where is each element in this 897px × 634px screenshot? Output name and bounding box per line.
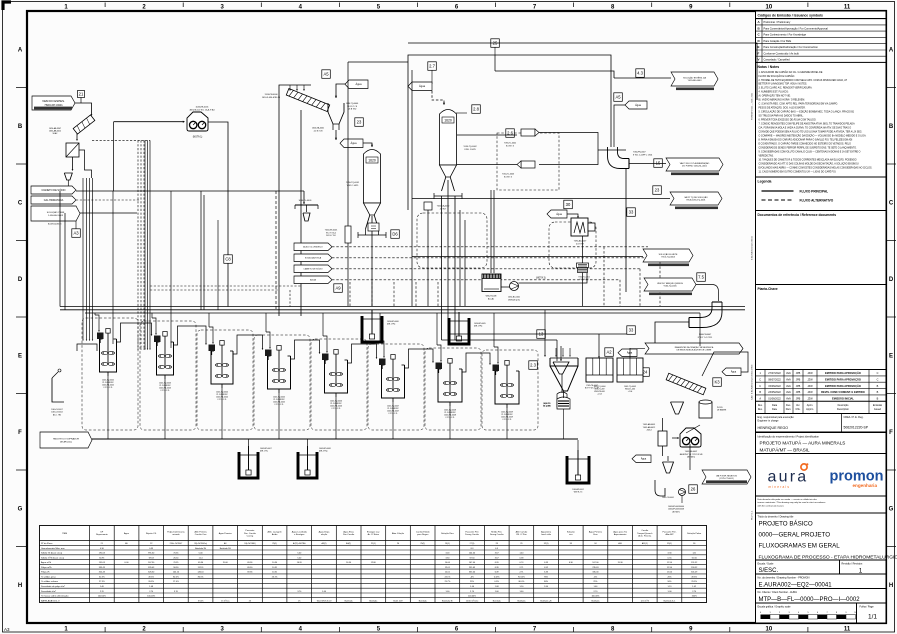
svg-text:(NOTA 1): (NOTA 1) bbox=[193, 136, 203, 139]
svg-text:301.29: 301.29 bbox=[691, 572, 698, 574]
svg-text:12.01: 12.01 bbox=[445, 567, 451, 569]
svg-text:Represamto: Represamto bbox=[96, 533, 108, 536]
svg-text:MTP—B—FL—0000—PRO—I—0002: MTP—B—FL—0000—PRO—I—0002 bbox=[759, 597, 861, 603]
svg-text:Título do desenho / Drawi: Título do desenho / Drawing title bbox=[758, 515, 794, 518]
feed launder box tank 3 bbox=[154, 336, 161, 343]
pump 1030-BL-0001 bbox=[510, 282, 519, 291]
svg-text:F: F bbox=[758, 51, 760, 55]
svg-text:1030-BL-0001: 1030-BL-0001 bbox=[508, 297, 520, 299]
svg-text:69.36: 69.36 bbox=[198, 562, 204, 564]
wire chute to bin bbox=[76, 133, 78, 140]
svg-text:1045-CV-0002: 1045-CV-0002 bbox=[51, 412, 63, 414]
svg-text:1060-BP-0002: 1060-BP-0002 bbox=[572, 489, 584, 491]
svg-text:Engineer in charge: Engineer in charge bbox=[758, 420, 780, 423]
svg-text:23 A - NOTA 7: 23 A - NOTA 7 bbox=[170, 542, 184, 545]
column vessel Y050-TQ-0002 bbox=[440, 110, 457, 192]
node box 13 bbox=[537, 330, 546, 339]
filter press unit 1045-EE-0001 bbox=[187, 112, 208, 131]
svg-text:10: 10 bbox=[766, 627, 773, 633]
svg-text:Passante Pen.: Passante Pen. bbox=[663, 530, 677, 533]
svg-text:10.31: 10.31 bbox=[272, 567, 278, 569]
svg-text:(Y075-CT-0001): (Y075-CT-0001) bbox=[719, 478, 734, 480]
inclined screen Y060-PN-0008 bbox=[666, 373, 706, 394]
svg-text:C: C bbox=[18, 200, 23, 206]
svg-text:with the contractual clauses: with the contractual clauses bbox=[758, 505, 784, 508]
svg-text:Batelada: Batelada bbox=[419, 599, 428, 602]
svg-text:Y050-TL-0001: Y050-TL-0001 bbox=[578, 277, 590, 279]
node box 24 bbox=[641, 368, 650, 377]
cascade launder bridges bbox=[117, 323, 152, 342]
svg-text:235.63: 235.63 bbox=[592, 567, 599, 569]
svg-text:F: F bbox=[889, 430, 893, 436]
flag VAI P SILO bbox=[666, 158, 723, 171]
svg-text:29%: 29% bbox=[593, 581, 597, 583]
svg-text:0000—GERAL PROJETO: 0000—GERAL PROJETO bbox=[759, 531, 831, 538]
drawing title block bbox=[756, 513, 887, 560]
svg-text:Issued: Issued bbox=[874, 408, 882, 411]
agitated CIL tank 1045-TQ-0004 bbox=[209, 341, 234, 389]
svg-text:27.0%: 27.0% bbox=[173, 581, 179, 583]
pipe elbow 1040-PN-0007 bbox=[689, 302, 712, 318]
svg-text:SOLUÇÃO 70868: SOLUÇÃO 70868 bbox=[47, 211, 65, 214]
svg-text:Água/área: Água/área bbox=[541, 530, 552, 533]
planta-chave block bbox=[756, 285, 887, 370]
svg-text:para Regen: para Regen bbox=[417, 534, 429, 536]
svg-text:2h: 2h bbox=[298, 600, 300, 602]
issuance codes table bbox=[756, 11, 887, 63]
svg-text:DE AR (CIL): DE AR (CIL) bbox=[60, 440, 72, 443]
svg-text:322.43: 322.43 bbox=[99, 572, 106, 574]
svg-text:Y060-PN-0007: Y060-PN-0007 bbox=[633, 152, 646, 154]
svg-text:335.43: 335.43 bbox=[99, 567, 106, 569]
vessel label Y050-CA-0012 box bbox=[424, 202, 432, 210]
bin vessel 1635-AB-0012 bbox=[66, 143, 79, 157]
svg-text:Água: Água bbox=[635, 104, 641, 107]
node box 23 bbox=[355, 118, 364, 127]
svg-text:Água para TQ: Água para TQ bbox=[613, 530, 627, 533]
svg-text:% sólidos volume: % sólidos volume bbox=[41, 581, 59, 583]
svg-text:4B/12 A 1x1 W L 13-A JT A3: 4B/12 A 1x1 W L 13-A JT A3 bbox=[189, 108, 215, 111]
svg-text:CAL HIDRATADA: CAL HIDRATADA bbox=[44, 199, 64, 202]
node box 2.6 bbox=[506, 129, 515, 138]
svg-text:Y050-MT-0001: Y050-MT-0001 bbox=[325, 230, 338, 232]
tail distributor funnel Y065-TE-0002 bbox=[550, 358, 578, 366]
wire pot down bbox=[582, 273, 584, 307]
svg-text:Descrição: Descrição bbox=[838, 404, 849, 407]
wire vertical x626 bbox=[625, 169, 627, 293]
node box C8 bbox=[224, 255, 233, 263]
svg-text:191.52: 191.52 bbox=[691, 562, 698, 564]
flag agua dewater bbox=[632, 455, 651, 463]
trunk verticals left bbox=[59, 191, 61, 307]
svg-text:60.93: 60.93 bbox=[99, 557, 105, 559]
svg-text:Carvão: Carvão bbox=[641, 529, 649, 532]
svg-text:Y065-AB-0012: Y065-AB-0012 bbox=[643, 426, 655, 429]
svg-text:Conforme Construído / As bui: Conforme Construído / As built bbox=[764, 51, 800, 55]
legend block bbox=[756, 177, 887, 211]
svg-text:Batelada -2h: Batelada -2h bbox=[540, 599, 551, 602]
single verticals mid-left bbox=[112, 191, 114, 344]
wire solution header y213 bbox=[80, 212, 137, 214]
svg-text:Notas / Notes: Notas / Notes bbox=[758, 65, 780, 69]
svg-text:A9: A9 bbox=[335, 286, 341, 291]
svg-text:A/C L 7E2: A/C L 7E2 bbox=[53, 413, 61, 416]
svg-text:4.3: 4.3 bbox=[637, 71, 643, 76]
svg-text:Polpa m³/h: Polpa m³/h bbox=[41, 566, 52, 569]
svg-text:HENRIQUE REGO: HENRIQUE REGO bbox=[758, 426, 789, 430]
svg-text:Batelada: Batelada bbox=[369, 599, 378, 602]
svg-text:PROJETO BÁSICO: PROJETO BÁSICO bbox=[759, 520, 813, 527]
svg-text:70.35: 70.35 bbox=[173, 553, 179, 555]
svg-text:Água: Água bbox=[355, 82, 362, 86]
svg-text:SODA CÁUSTICA: SODA CÁUSTICA bbox=[305, 256, 322, 259]
flag VAI P TQ SOLUCAO RICA bbox=[670, 192, 722, 205]
svg-text:12.50: 12.50 bbox=[667, 567, 673, 569]
svg-text:AVA: AVA bbox=[786, 378, 791, 381]
wire screen2 feed bbox=[702, 352, 748, 376]
svg-text:Batelada: Batelada bbox=[517, 599, 526, 602]
wire top bus C bbox=[348, 61, 408, 63]
svg-text:9. CONSIDERADAS CONVOLUTO CAN: 9. CONSIDERADAS CONVOLUTO CANAL E CLUB —… bbox=[759, 150, 861, 153]
node box 2.7 bbox=[428, 62, 437, 71]
svg-text:Preliminar / Preliminary: Preliminar / Preliminary bbox=[764, 20, 792, 24]
svg-text:termos contratuais / This draw: termos contratuais / This drawing may on… bbox=[758, 501, 827, 504]
svg-text:(NR.1 PK): (NR.1 PK) bbox=[387, 324, 396, 326]
svg-text:Alim Carvão: Alim Carvão bbox=[516, 530, 528, 533]
svg-text:fund. utiliz: fund. utiliz bbox=[541, 533, 551, 536]
svg-text:Rev.: Rev. bbox=[758, 408, 763, 411]
svg-text:BETTER P/ LAVAGEM E TOP. ÁGUA: BETTER P/ LAVAGEM E TOP. ÁGUA / NOTES. bbox=[759, 83, 808, 86]
svg-text:E: E bbox=[18, 353, 22, 359]
J pipe dewater bbox=[655, 480, 665, 496]
svg-text:A7(2)+NOTA5: A7(2)+NOTA5 bbox=[293, 542, 306, 545]
svg-text:-6%: -6% bbox=[470, 577, 474, 579]
node box A2 bbox=[605, 348, 614, 357]
svg-text:26(1): 26(1) bbox=[445, 543, 450, 545]
dashed tank group enclosures bbox=[82, 318, 138, 430]
agitated CIL tank 1045-TQ-0006 bbox=[322, 350, 348, 398]
node box 2.3 bbox=[529, 361, 538, 370]
svg-text:326.30: 326.30 bbox=[148, 572, 155, 574]
svg-text:80.5%: 80.5% bbox=[173, 577, 179, 579]
feed launder box tank 5 bbox=[265, 350, 272, 357]
svg-text:84%: 84% bbox=[544, 581, 548, 583]
svg-text:DN9 A.B (2.3): DN9 A.B (2.3) bbox=[508, 298, 520, 301]
svg-text:Ver.: Ver. bbox=[796, 404, 800, 407]
legend fluxo principal line bbox=[762, 190, 794, 192]
svg-text:O COMPARE — MAIORES ABSTENÇÃO: O COMPARE — MAIORES ABSTENÇÃO DA EDIÇÃO … bbox=[759, 135, 867, 138]
svg-text:Batelada 3+1: Batelada 3+1 bbox=[664, 599, 677, 602]
svg-text:107.00: 107.00 bbox=[592, 562, 599, 564]
svg-text:Pen.Carvão: Pen.Carvão bbox=[343, 533, 355, 536]
svg-text:1614-3-434-M 80.96: 1614-3-434-M 80.96 bbox=[262, 97, 281, 99]
graphic scale bar bbox=[761, 615, 771, 620]
svg-text:CREA / P. E. Reg.: CREA / P. E. Reg. bbox=[844, 416, 864, 419]
svg-text:100.00%: 100.00% bbox=[591, 596, 599, 598]
svg-text:1040-CV-0007: 1040-CV-0007 bbox=[51, 409, 63, 411]
flag SOLUCAO 7088 bbox=[31, 206, 80, 221]
svg-text:6. PREVER TODA EXCESSO DE ÁGU: 6. PREVER TODA EXCESSO DE ÁGUA COM TALUD… bbox=[759, 119, 817, 122]
svg-text:Água limpa: Água limpa bbox=[319, 530, 331, 533]
svg-text:VEM DO TANQUE QUENCH: VEM DO TANQUE QUENCH bbox=[657, 282, 683, 285]
flag VEM DO ESPES 7600-FP-0021 bbox=[32, 96, 75, 110]
regeneration kiln 1630-TM-0001 bbox=[482, 274, 501, 292]
svg-text:AVA: AVA bbox=[786, 391, 791, 394]
svg-text:Água: Água bbox=[124, 532, 130, 535]
svg-text:15 m³/cia: 15 m³/cia bbox=[221, 599, 230, 602]
node box 25 bbox=[491, 39, 500, 48]
node box 23 right bbox=[653, 186, 662, 195]
svg-text:8.0 M 7.3: 8.0 M 7.3 bbox=[506, 145, 514, 147]
svg-text:ITEM: ITEM bbox=[62, 533, 67, 535]
svg-text:16.20: 16.20 bbox=[297, 562, 303, 564]
svg-text:1310-PN-0006: 1310-PN-0006 bbox=[264, 94, 278, 96]
svg-text:27.3%: 27.3% bbox=[99, 581, 105, 583]
svg-text:E.AURA002-EQ2-00041: E.AURA002-EQ2-00041 bbox=[751, 236, 754, 260]
svg-text:E: E bbox=[758, 45, 760, 49]
svg-text:Y050-TQ-0002: Y050-TQ-0002 bbox=[463, 146, 477, 148]
wire screen feed riser x279 bbox=[279, 85, 311, 316]
svg-text:Batelada: Batelada bbox=[493, 599, 502, 602]
svg-text:D: D bbox=[889, 277, 894, 283]
svg-text:H: H bbox=[889, 583, 893, 589]
sump pump pit 1050-BP-0006 bbox=[361, 310, 383, 342]
svg-text:ÁGUA: ÁGUA bbox=[310, 278, 316, 281]
bell sampler below funnel bbox=[557, 397, 570, 409]
svg-text:11: 11 bbox=[844, 627, 851, 633]
svg-text:Escala gráfica / Graphic s: Escala gráfica / Graphic scale bbox=[758, 606, 792, 609]
svg-text:D: D bbox=[18, 277, 23, 283]
svg-text:Y065-EE-0007: Y065-EE-0007 bbox=[685, 451, 697, 453]
client number block bbox=[756, 589, 887, 604]
drum Y065 cylinder bbox=[699, 402, 712, 418]
small pot Y050-TL-0001 bbox=[577, 263, 589, 268]
svg-text:96%: 96% bbox=[544, 577, 548, 579]
wire kiln feed twin verticals bbox=[490, 190, 492, 273]
svg-text:CIANETO DE SÓDIO: CIANETO DE SÓDIO bbox=[42, 189, 66, 192]
logos block bbox=[756, 454, 887, 497]
svg-text:% massa sobre alimentação: % massa sobre alimentação bbox=[41, 595, 69, 598]
svg-text:Passante: Passante bbox=[245, 529, 255, 532]
svg-text:(NOTA 7): (NOTA 7) bbox=[672, 510, 680, 513]
svg-text:C: C bbox=[759, 385, 761, 388]
wire sub-bus y71 bbox=[495, 71, 614, 78]
node box 7.5 bbox=[697, 273, 706, 282]
wire elbow to silo flag bbox=[629, 163, 666, 165]
node box 26 bbox=[689, 485, 698, 494]
svg-text:W P.05: W P.05 bbox=[717, 407, 723, 409]
flag agua screen bbox=[345, 80, 368, 89]
svg-text:Solução: Solução bbox=[567, 530, 576, 533]
svg-text:Y050-CA-0012: Y050-CA-0012 bbox=[437, 205, 450, 208]
svg-text:(NR.1 PK): (NR.1 PK) bbox=[474, 326, 483, 328]
svg-text:96.30: 96.30 bbox=[173, 567, 179, 569]
svg-text:146.10: 146.10 bbox=[198, 572, 205, 574]
svg-text:59.50: 59.50 bbox=[469, 557, 475, 559]
dashed enclosure heater bbox=[549, 222, 596, 268]
trunk line y306 bbox=[60, 306, 745, 308]
svg-text:100.00%: 100.00% bbox=[468, 596, 476, 598]
svg-text:CIANETO DE SÓDIO: CIANETO DE SÓDIO bbox=[303, 267, 323, 270]
screen feed arrows bbox=[289, 85, 291, 90]
svg-text:Escala / Scale: Escala / Scale bbox=[758, 562, 774, 565]
svg-text:3. ELUTO CLARO A/C. REAGENT V: 3. ELUTO CLARO A/C. REAGENT VERIFICADURA… bbox=[759, 87, 813, 90]
svg-text:Folha / Page: Folha / Page bbox=[860, 606, 875, 609]
svg-text:CIA. FORA BAIXA MOLA E VAZIA A: CIA. FORA BAIXA MOLA E VAZIA A CURVA, TO… bbox=[759, 127, 852, 130]
svg-text:VAI P/ ESP. REJEITOS: VAI P/ ESP. REJEITOS bbox=[716, 474, 737, 477]
svg-text:Chk.: Chk. bbox=[796, 408, 801, 411]
filter column small bbox=[658, 431, 667, 446]
svg-text:(NOTA 5): (NOTA 5) bbox=[687, 456, 695, 459]
svg-text:JPB: JPB bbox=[796, 397, 801, 400]
wire top bus B bbox=[408, 43, 757, 100]
svg-text:160%: 160% bbox=[692, 596, 697, 598]
svg-text:33: 33 bbox=[629, 210, 634, 215]
flag CIANETO right bbox=[294, 265, 332, 273]
tank1 feed launder trough bbox=[77, 344, 97, 351]
svg-text:PACOTE DO SOPRADOR: PACOTE DO SOPRADOR bbox=[53, 437, 79, 440]
svg-text:Água: Água bbox=[419, 84, 426, 88]
svg-text:4. NUMBERS EST. FLUXOS:: 4. NUMBERS EST. FLUXOS: bbox=[759, 92, 789, 94]
node box K3 bbox=[713, 378, 722, 387]
svg-text:1040-TL-0001: 1040-TL-0001 bbox=[298, 200, 312, 202]
wire header double corner x201 bbox=[200, 191, 202, 310]
svg-text:G: G bbox=[889, 506, 894, 512]
svg-text:A5: A5 bbox=[323, 72, 329, 77]
dashed bundle top header bbox=[92, 139, 150, 141]
funnel quench-feed bbox=[553, 362, 569, 374]
svg-text:AVA: AVA bbox=[786, 372, 791, 375]
svg-text:oriunda: oriunda bbox=[172, 534, 180, 536]
agitated CIL tank 1045-TQ-0003 bbox=[154, 332, 174, 380]
svg-text:10. TANQUES DE CIANETO R & TOD: 10. TANQUES DE CIANETO R & TODOS CORRENT… bbox=[759, 158, 857, 161]
svg-text:Aprm.: Aprm. bbox=[807, 404, 814, 407]
node box A3 bbox=[72, 229, 81, 238]
svg-text:Desag Carvão: Desag Carvão bbox=[490, 533, 504, 536]
node box 2.9 bbox=[334, 284, 343, 293]
bell vessel quench bbox=[557, 392, 567, 407]
svg-text:Alim. Lavagem: Alim. Lavagem bbox=[268, 530, 282, 533]
svg-text:Água Enxa: Água Enxa bbox=[343, 530, 354, 533]
svg-text:V.W.L 1 H/25: V.W.L 1 H/25 bbox=[464, 149, 476, 151]
svg-text:(NR.1 PL): (NR.1 PL) bbox=[260, 451, 268, 453]
svg-text:Documentos de referência /: Documentos de referência / Reference doc… bbox=[758, 213, 837, 217]
svg-text:335.43: 335.43 bbox=[148, 567, 155, 569]
svg-text:V.W.L 1 H/25: V.W.L 1 H/25 bbox=[347, 185, 359, 187]
wire header corner x304 down to tray bbox=[303, 191, 305, 204]
wire to tail funnel bbox=[544, 330, 546, 356]
flag agua column2 bbox=[408, 82, 432, 91]
node box 30 bbox=[564, 200, 573, 209]
pump dewater-pump bbox=[679, 489, 686, 496]
left solid bundle x83-93 bbox=[82, 178, 84, 340]
svg-text:PROJETO MATUPÁ — AURA MINERA: PROJETO MATUPÁ — AURA MINERALS bbox=[760, 439, 846, 445]
svg-text:% sólidos peso: % sólidos peso bbox=[41, 577, 56, 579]
sump pump pit 1045-BP-0007 bbox=[238, 446, 259, 478]
svg-text:4.2 N / DN: 4.2 N / DN bbox=[314, 130, 323, 132]
wire riser x408 bbox=[407, 62, 409, 210]
svg-text:25(1): 25(1) bbox=[371, 543, 376, 545]
svg-text:JZW: JZW bbox=[807, 372, 813, 375]
svg-text:AVA: AVA bbox=[786, 397, 791, 400]
svg-text:PLOT 1:1: PLOT 1:1 bbox=[752, 510, 754, 520]
svg-text:Pen. Carvão: Pen. Carvão bbox=[244, 532, 257, 535]
flag agua right bbox=[625, 101, 647, 109]
inclined chute 1620-AB-3307 bbox=[73, 115, 95, 134]
svg-text:100.00%: 100.00% bbox=[147, 596, 155, 598]
svg-text:23: 23 bbox=[357, 120, 362, 125]
svg-text:BG? T W.L T LTR: BG? T W.L T LTR bbox=[585, 388, 600, 390]
svg-text:-6%: -6% bbox=[594, 577, 598, 579]
flag AGUA reagents bbox=[294, 276, 332, 284]
svg-text:JPB: JPB bbox=[796, 391, 801, 394]
svg-text:167.30: 167.30 bbox=[148, 562, 155, 564]
svg-text:49.3%: 49.3% bbox=[691, 577, 697, 579]
svg-text:MATUPÁ/MT — BRASIL: MATUPÁ/MT — BRASIL bbox=[760, 447, 811, 453]
legend fluxo alternativo line bbox=[762, 199, 794, 201]
funnel screen2-under bbox=[671, 402, 684, 414]
svg-text:23/05/2022: 23/05/2022 bbox=[768, 391, 781, 394]
svg-text:Y055-BU-0063: Y055-BU-0063 bbox=[688, 80, 703, 82]
flag agua screen2 bbox=[722, 368, 741, 376]
svg-text:Legenda: Legenda bbox=[758, 179, 772, 183]
svg-text:10.34: 10.34 bbox=[272, 562, 278, 564]
wire top bus A bbox=[408, 55, 611, 147]
svg-text:8.0 M 7.3: 8.0 M 7.3 bbox=[504, 176, 512, 178]
svg-text:Date: Date bbox=[772, 408, 778, 411]
node box 21 bbox=[78, 91, 85, 98]
funnel dewater bbox=[663, 462, 674, 473]
svg-text:15.00: 15.00 bbox=[223, 562, 229, 564]
wire right risers bbox=[699, 313, 701, 346]
svg-text:2.7: 2.7 bbox=[429, 64, 435, 69]
svg-text:16.50: 16.50 bbox=[346, 562, 352, 564]
svg-text:Códigos de Emissão / Issuanc: Códigos de Emissão / Issuance symbols bbox=[758, 14, 824, 18]
svg-text:V: V bbox=[758, 58, 760, 62]
wire ee down bbox=[689, 444, 691, 470]
svg-text:PESOS DE ATENÇÃO, DOS. A LEI E: PESOS DE ATENÇÃO, DOS. A LEI E BATER. bbox=[759, 107, 806, 110]
svg-text:S/ESC.: S/ESC. bbox=[759, 568, 779, 574]
flag CIANETO DE SODIO bbox=[31, 186, 76, 194]
flag VAI P ESP REJEITOS bbox=[702, 470, 751, 484]
funnel cup bbox=[64, 173, 72, 180]
svg-text:Alim Peneira: Alim Peneira bbox=[195, 530, 208, 533]
svg-text:Batelada 3h: Batelada 3h bbox=[442, 599, 453, 602]
chute device left bbox=[52, 378, 64, 402]
svg-text:minerals: minerals bbox=[769, 485, 791, 489]
svg-text:JPB: JPB bbox=[796, 372, 801, 375]
svg-text:Alim ElP: Alim ElP bbox=[665, 533, 674, 536]
svg-text:1620-KA-0001: 1620-KA-0001 bbox=[312, 127, 324, 130]
svg-text:AL QUAL: AL QUAL bbox=[543, 405, 550, 408]
flag PACOTE SOPRADOR bbox=[40, 432, 92, 448]
svg-text:SOLUÇÃO ELUETE: SOLUÇÃO ELUETE bbox=[659, 253, 678, 256]
svg-text:K3: K3 bbox=[714, 380, 720, 385]
svg-text:Granulometria Máx- mm: Granulometria Máx- mm bbox=[41, 547, 65, 550]
quench tank 1 Y065-TQ-0004 bbox=[586, 358, 613, 382]
svg-text:A | OPERAÇÃO TEM NOT VID.: A | OPERAÇÃO TEM NOT VID. bbox=[759, 95, 792, 98]
dashed lime header bbox=[76, 199, 140, 201]
svg-text:CONSIDERADOS SENDO FERROR PERF: CONSIDERADOS SENDO FERROR PERFIL DE SUSP… bbox=[759, 146, 858, 149]
trunk line y313 bbox=[85, 312, 700, 314]
svg-text:FLUXOGRAMAS EM GERAL: FLUXOGRAMAS EM GERAL bbox=[759, 542, 841, 549]
svg-text:12.80: 12.80 bbox=[371, 562, 377, 564]
air blower header bbox=[92, 438, 578, 440]
svg-text:20%: 20% bbox=[667, 577, 671, 579]
svg-text:VEREDICTAS.: VEREDICTAS. bbox=[759, 154, 775, 157]
small box sampler2 bbox=[368, 223, 379, 231]
corner mark top-left bbox=[3, 2, 11, 10]
